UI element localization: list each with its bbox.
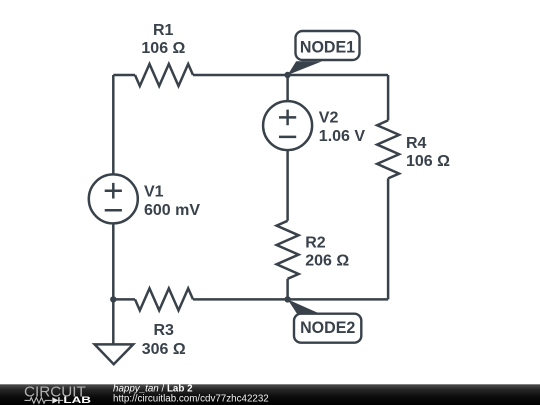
footer url line (113, 394, 269, 405)
node NODE1 junction dot (284, 72, 290, 78)
wire: V1 bottom to bottom-left junction (112, 223, 115, 299)
node NODE2 label callout (288, 299, 362, 342)
label R3 value (142, 322, 186, 358)
svg-text:http://circuitlab.com/cdv77zhc: http://circuitlab.com/cdv77zhc42232 (113, 394, 269, 405)
voltage source V1 (89, 174, 138, 223)
wire: V2 bottom to R2 top (286, 150, 289, 221)
voltage source V2 (263, 101, 312, 150)
svg-text:R1: R1 (153, 22, 174, 39)
ground (95, 344, 134, 364)
resistor R3 (135, 288, 193, 310)
svg-text:306 Ω: 306 Ω (142, 341, 186, 358)
svg-text:NODE1: NODE1 (300, 38, 355, 57)
svg-text:R4: R4 (406, 135, 427, 152)
node: bottom-left junction dot (110, 296, 116, 302)
svg-text:LAB: LAB (63, 395, 91, 405)
node NODE2 junction dot (284, 296, 290, 302)
wire: left rail top segment (top-left corner to V1 top) (112, 75, 115, 175)
svg-text:NODE2: NODE2 (300, 318, 355, 337)
wire: right rail upper segment (387, 75, 390, 120)
node NODE1 label callout (288, 31, 360, 75)
svg-text:R3: R3 (153, 322, 174, 339)
label V1 value (144, 184, 200, 219)
footer CircuitLab logo wordmark CIRCUIT (24, 385, 86, 401)
wire: mid vertical from NODE1 junction to V2 top (286, 75, 289, 101)
wire: top rail from R1 to right rail (193, 74, 388, 77)
svg-text:206 Ω: 206 Ω (305, 253, 349, 270)
footer credit line: happy_tan / Lab 2 (113, 383, 193, 394)
wire: ground stem below junction (112, 299, 115, 344)
wire: bottom rail left lead into R3 (113, 298, 135, 301)
footer CircuitLab logo wordmark LAB (63, 395, 91, 405)
svg-text:106 Ω: 106 Ω (406, 153, 450, 170)
footer logo resistor-diode symbol (25, 397, 64, 403)
svg-text:V1: V1 (144, 184, 164, 201)
wire: R2 bottom to NODE2 junction (286, 279, 289, 300)
wire: right rail lower segment (387, 178, 390, 299)
svg-text:V2: V2 (319, 110, 339, 127)
resistor R1 (135, 64, 193, 86)
label R2 value (305, 234, 349, 269)
svg-text:1.06 V: 1.06 V (319, 128, 366, 145)
wire: top rail left lead into R1 (113, 74, 135, 77)
wire: bottom rail from R3 to right rail (193, 298, 388, 301)
label R1 value (141, 22, 185, 57)
svg-text:R2: R2 (305, 234, 326, 251)
svg-text:106 Ω: 106 Ω (141, 40, 185, 57)
resistor R4 (377, 120, 399, 178)
resistor R2 (277, 221, 299, 279)
label V2 value (319, 110, 366, 145)
footer bar (0, 384, 540, 405)
label R4 value (406, 135, 450, 170)
svg-text:600 mV: 600 mV (144, 202, 200, 219)
